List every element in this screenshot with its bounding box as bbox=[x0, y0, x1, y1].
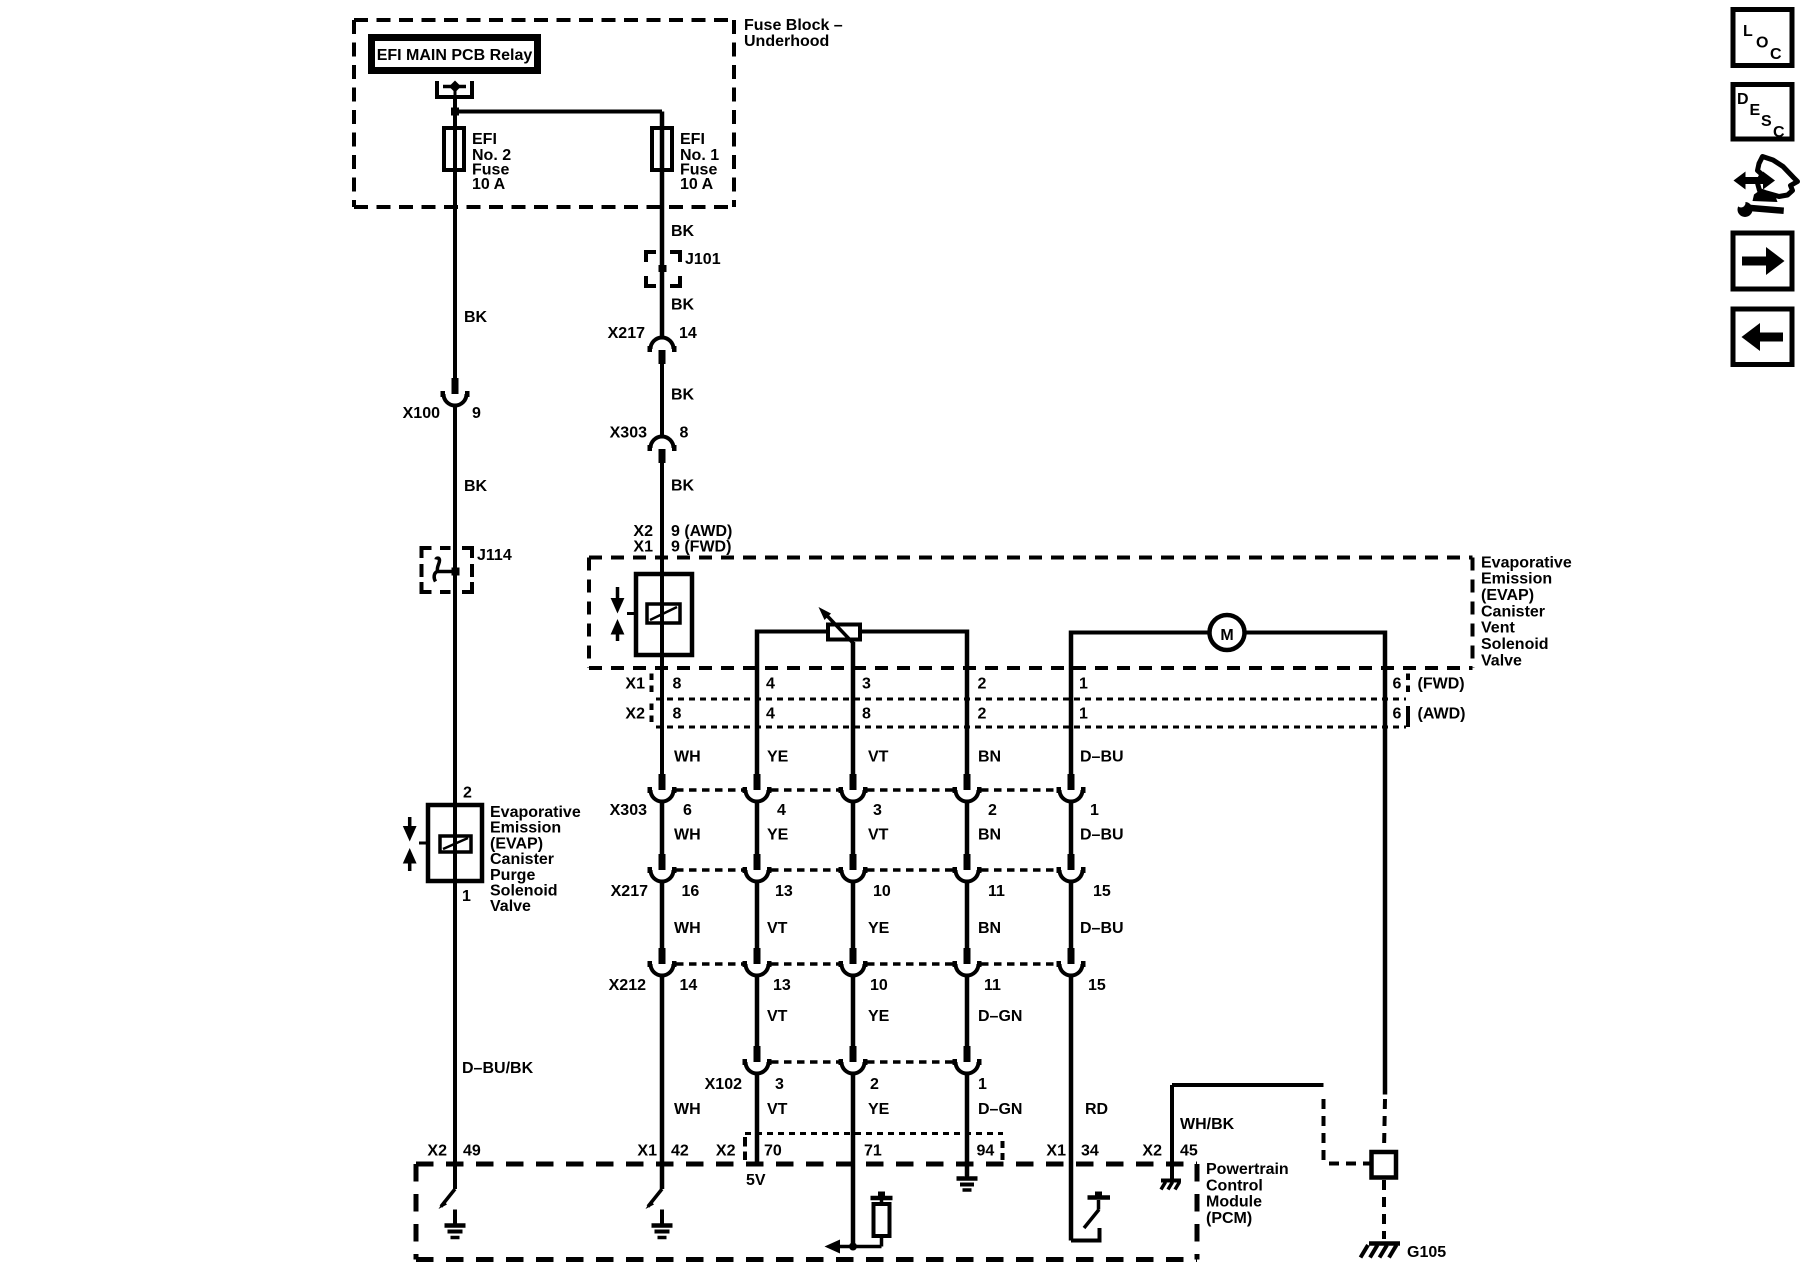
svg-text:YE: YE bbox=[767, 749, 789, 766]
wire branch pins 4-3-2 horizontal bbox=[757, 630, 967, 775]
icon LOC button bbox=[1733, 10, 1792, 66]
PCM pin 94 ground bbox=[957, 1164, 978, 1190]
connector row X1 (vent valve) bbox=[625, 674, 1464, 700]
connector X303 pin 8 inline bbox=[610, 425, 689, 464]
svg-text:X217: X217 bbox=[611, 883, 648, 900]
svg-text:1: 1 bbox=[462, 888, 471, 905]
svg-text:G105: G105 bbox=[1407, 1244, 1446, 1261]
svg-text:Evaporative: Evaporative bbox=[1481, 554, 1572, 571]
svg-text:Canister: Canister bbox=[490, 851, 554, 868]
svg-text:34: 34 bbox=[1081, 1143, 1099, 1160]
svg-text:BK: BK bbox=[671, 297, 695, 314]
svg-text:(FWD): (FWD) bbox=[1418, 676, 1465, 693]
svg-text:70: 70 bbox=[764, 1143, 782, 1160]
svg-text:(AWD): (AWD) bbox=[1418, 706, 1466, 723]
PCM pin 42 driver switch bbox=[646, 1189, 663, 1209]
icon forward arrow button bbox=[1733, 233, 1792, 289]
svg-text:YE: YE bbox=[868, 920, 890, 937]
svg-text:1: 1 bbox=[1090, 802, 1099, 819]
svg-text:Emission: Emission bbox=[1481, 571, 1552, 588]
label fuse EFI No.1 bbox=[680, 131, 719, 193]
connector X217 pin 14 inline bbox=[608, 325, 697, 364]
svg-text:9 (AWD): 9 (AWD) bbox=[671, 523, 732, 540]
svg-text:L: L bbox=[1743, 23, 1753, 40]
svg-text:E: E bbox=[1750, 102, 1761, 119]
svg-text:VT: VT bbox=[767, 920, 788, 937]
svg-text:Valve: Valve bbox=[490, 898, 531, 915]
svg-text:BK: BK bbox=[671, 223, 695, 240]
svg-text:C: C bbox=[1770, 46, 1782, 63]
label: Fuse Block - Underhood bbox=[744, 17, 843, 50]
svg-text:8: 8 bbox=[673, 676, 682, 693]
svg-text:VT: VT bbox=[868, 749, 889, 766]
wire WH/BK from PCM pin 45 bbox=[1172, 1085, 1371, 1179]
svg-text:Powertrain: Powertrain bbox=[1206, 1161, 1289, 1178]
svg-text:8: 8 bbox=[673, 706, 682, 723]
svg-text:X2: X2 bbox=[1142, 1143, 1162, 1160]
PCM pin labels bbox=[427, 1143, 1197, 1160]
svg-text:4: 4 bbox=[766, 706, 775, 723]
svg-text:2: 2 bbox=[988, 802, 997, 819]
svg-text:3: 3 bbox=[862, 676, 871, 693]
svg-text:Solenoid: Solenoid bbox=[1481, 636, 1549, 653]
svg-text:EFI: EFI bbox=[472, 131, 497, 148]
svg-text:Module: Module bbox=[1206, 1194, 1262, 1211]
svg-text:J101: J101 bbox=[685, 251, 721, 268]
PCM pin 71 pull-up resistor and 5V reference arrow bbox=[825, 1192, 893, 1254]
connector row X303 bbox=[610, 774, 1099, 819]
svg-text:YE: YE bbox=[868, 1101, 890, 1118]
junction at relay output bbox=[451, 108, 459, 116]
svg-text:Control: Control bbox=[1206, 1177, 1263, 1194]
svg-text:X1: X1 bbox=[633, 539, 653, 556]
connector X100 pin 9 bbox=[403, 378, 481, 422]
EVAP canister purge solenoid valve bbox=[403, 805, 482, 881]
wire pin1 to pin6 horizontal bbox=[1071, 631, 1385, 1095]
svg-text:BN: BN bbox=[978, 827, 1001, 844]
svg-text:D: D bbox=[1737, 91, 1749, 108]
svg-text:Valve: Valve bbox=[1481, 652, 1522, 669]
icon DESC button bbox=[1733, 85, 1792, 142]
wire pin 3 vertical bbox=[851, 642, 856, 774]
svg-text:16: 16 bbox=[682, 883, 700, 900]
svg-text:C: C bbox=[1773, 124, 1785, 141]
svg-text:71: 71 bbox=[864, 1143, 882, 1160]
svg-text:10: 10 bbox=[873, 883, 891, 900]
EVAP canister vent solenoid valve dashed box bbox=[589, 558, 1473, 669]
wire BK segment bbox=[662, 364, 695, 438]
connector row X217 bbox=[611, 854, 1111, 900]
svg-text:45: 45 bbox=[1180, 1143, 1198, 1160]
svg-text:Evaporative: Evaporative bbox=[490, 804, 581, 821]
X2 pins 70-94 dotted bracket bbox=[745, 1134, 1003, 1161]
svg-text:WH/BK: WH/BK bbox=[1180, 1116, 1235, 1133]
powertrain control module PCM dashed box bbox=[416, 1164, 1197, 1260]
svg-text:Fuse Block –: Fuse Block – bbox=[744, 17, 843, 34]
svg-text:D–BU: D–BU bbox=[1080, 827, 1124, 844]
svg-text:13: 13 bbox=[773, 977, 791, 994]
svg-text:BN: BN bbox=[978, 920, 1001, 937]
svg-text:14: 14 bbox=[680, 977, 698, 994]
svg-text:O: O bbox=[1756, 35, 1768, 52]
svg-text:EFI MAIN PCB Relay: EFI MAIN PCB Relay bbox=[377, 47, 533, 64]
svg-text:M: M bbox=[1220, 627, 1233, 644]
svg-text:D–BU/BK: D–BU/BK bbox=[462, 1060, 534, 1077]
svg-text:Emission: Emission bbox=[490, 820, 561, 837]
PCM pin 49 ground bbox=[445, 1210, 466, 1238]
svg-text:VT: VT bbox=[767, 1101, 788, 1118]
svg-text:X100: X100 bbox=[403, 405, 440, 422]
PCM pin 34 driver switch bbox=[1071, 1192, 1110, 1243]
svg-text:13: 13 bbox=[775, 883, 793, 900]
svg-text:11: 11 bbox=[984, 977, 1001, 994]
svg-text:Canister: Canister bbox=[1481, 603, 1545, 620]
svg-text:BK: BK bbox=[464, 309, 488, 326]
svg-text:D–GN: D–GN bbox=[978, 1008, 1022, 1025]
svg-text:EFI: EFI bbox=[680, 131, 705, 148]
svg-text:10 A: 10 A bbox=[472, 176, 506, 193]
label X2 9 (AWD) / X1 9 (FWD) bbox=[633, 523, 732, 556]
svg-text:WH: WH bbox=[674, 1101, 701, 1118]
svg-text:1: 1 bbox=[1079, 706, 1088, 723]
motor M bbox=[1210, 615, 1245, 650]
svg-text:VT: VT bbox=[767, 1008, 788, 1025]
svg-text:9 (FWD): 9 (FWD) bbox=[671, 539, 731, 556]
variable sensor (potentiometer) symbol bbox=[819, 607, 861, 644]
wires between X212 and X102 + colors row 4 bbox=[662, 975, 1071, 1241]
svg-text:6: 6 bbox=[683, 802, 692, 819]
wires below X102 + colors row 5 bbox=[674, 1073, 1108, 1247]
fuse EFI No.1 10A bbox=[652, 128, 672, 170]
svg-text:1: 1 bbox=[1079, 676, 1088, 693]
svg-text:X1: X1 bbox=[1046, 1143, 1066, 1160]
wire BK to vent valve bbox=[662, 463, 695, 774]
wire relay to fuses (left vertical + horizontal to right) bbox=[455, 97, 662, 379]
svg-text:15: 15 bbox=[1093, 883, 1111, 900]
svg-text:4: 4 bbox=[777, 802, 786, 819]
svg-text:6: 6 bbox=[1393, 676, 1402, 693]
svg-text:X1: X1 bbox=[625, 676, 645, 693]
fuse EFI No.2 10A bbox=[444, 128, 464, 170]
svg-text:VT: VT bbox=[868, 827, 889, 844]
svg-text:Underhood: Underhood bbox=[744, 33, 829, 50]
relay output terminal symbol bbox=[437, 81, 472, 98]
svg-text:BN: BN bbox=[978, 749, 1001, 766]
vent solenoid valve symbol bbox=[611, 574, 692, 655]
svg-text:2: 2 bbox=[463, 785, 472, 802]
label PCM bbox=[1206, 1161, 1289, 1227]
label fuse EFI No.2 bbox=[472, 131, 511, 193]
ground G105 branch bbox=[1365, 1099, 1396, 1239]
svg-text:S: S bbox=[1761, 113, 1772, 130]
svg-text:X2: X2 bbox=[716, 1143, 736, 1160]
svg-text:15: 15 bbox=[1088, 977, 1106, 994]
ground symbol G105 bbox=[1361, 1244, 1447, 1262]
relay EFI MAIN PCB Relay label box bbox=[372, 38, 538, 71]
svg-text:X2: X2 bbox=[633, 523, 653, 540]
connector row X212 bbox=[609, 948, 1106, 994]
label EVAP vent valve bbox=[1481, 554, 1572, 669]
icon back arrow button bbox=[1733, 309, 1792, 365]
wire BK left lower bbox=[455, 406, 488, 1190]
svg-text:49: 49 bbox=[463, 1143, 481, 1160]
svg-text:(EVAP): (EVAP) bbox=[1481, 587, 1534, 604]
svg-text:D–BU: D–BU bbox=[1080, 749, 1124, 766]
svg-text:BK: BK bbox=[464, 478, 488, 495]
svg-text:8: 8 bbox=[680, 425, 689, 442]
svg-text:X212: X212 bbox=[609, 977, 646, 994]
svg-text:10 A: 10 A bbox=[680, 176, 714, 193]
svg-text:11: 11 bbox=[988, 883, 1005, 900]
PCM pin 49 driver switch bbox=[439, 1189, 456, 1209]
svg-text:2: 2 bbox=[870, 1076, 879, 1093]
svg-text:D–BU: D–BU bbox=[1080, 920, 1124, 937]
label EVAP purge valve bbox=[490, 804, 581, 915]
svg-text:42: 42 bbox=[671, 1143, 689, 1160]
svg-text:2: 2 bbox=[978, 676, 987, 693]
svg-text:X217: X217 bbox=[608, 325, 645, 342]
fuse block underhood dashed box bbox=[354, 20, 734, 207]
svg-text:J114: J114 bbox=[477, 547, 512, 564]
wires between X303 and X217 + colors row 2 bbox=[662, 801, 1124, 854]
PCM pin 45 internal case ground bbox=[1161, 1181, 1181, 1190]
svg-text:4: 4 bbox=[766, 676, 775, 693]
svg-text:WH: WH bbox=[674, 827, 701, 844]
svg-text:(EVAP): (EVAP) bbox=[490, 835, 543, 852]
svg-text:6: 6 bbox=[1393, 706, 1402, 723]
svg-text:X1: X1 bbox=[637, 1143, 657, 1160]
svg-text:Purge: Purge bbox=[490, 867, 535, 884]
svg-text:9: 9 bbox=[472, 405, 481, 422]
splice J101 bbox=[646, 251, 721, 286]
splice J114 bbox=[422, 547, 512, 592]
svg-text:WH: WH bbox=[674, 749, 701, 766]
svg-text:X303: X303 bbox=[610, 425, 647, 442]
svg-text:3: 3 bbox=[775, 1076, 784, 1093]
PCM pin 42 ground bbox=[652, 1210, 673, 1238]
svg-text:YE: YE bbox=[868, 1008, 890, 1025]
wires between X217 and X212 + colors row 3 bbox=[662, 881, 1124, 948]
svg-text:D–GN: D–GN bbox=[978, 1101, 1022, 1118]
svg-text:94: 94 bbox=[977, 1143, 995, 1160]
svg-text:BK: BK bbox=[671, 478, 695, 495]
svg-text:8: 8 bbox=[862, 706, 871, 723]
svg-text:X303: X303 bbox=[610, 802, 647, 819]
svg-text:BK: BK bbox=[671, 387, 695, 404]
connector row X2 (vent valve) bbox=[625, 704, 1465, 728]
icon harness routing (arrows and wrench) bbox=[1734, 157, 1798, 218]
wire colors row 1 bbox=[674, 749, 1124, 766]
svg-text:Vent: Vent bbox=[1481, 620, 1515, 637]
svg-text:X2: X2 bbox=[427, 1143, 447, 1160]
svg-text:14: 14 bbox=[679, 325, 697, 342]
svg-text:2: 2 bbox=[978, 706, 987, 723]
svg-text:RD: RD bbox=[1085, 1101, 1108, 1118]
svg-text:WH: WH bbox=[674, 920, 701, 937]
svg-text:(PCM): (PCM) bbox=[1206, 1210, 1252, 1227]
svg-text:1: 1 bbox=[978, 1076, 987, 1093]
svg-text:X102: X102 bbox=[705, 1076, 742, 1093]
svg-text:YE: YE bbox=[767, 827, 789, 844]
svg-text:10: 10 bbox=[870, 977, 888, 994]
connector row X102 bbox=[705, 1046, 987, 1093]
svg-text:X2: X2 bbox=[625, 706, 645, 723]
svg-text:Solenoid: Solenoid bbox=[490, 883, 558, 900]
svg-text:5V: 5V bbox=[746, 1172, 766, 1189]
svg-text:3: 3 bbox=[873, 802, 882, 819]
